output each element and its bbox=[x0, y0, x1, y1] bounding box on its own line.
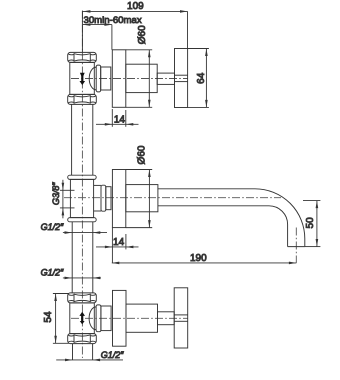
middle assembly horizontal centerline bbox=[64, 197, 281, 199]
flange F2 bottom edge extension bbox=[126, 227, 152, 229]
riser pipe P1 bbox=[71, 104, 73, 175]
flange F1 bottom edge extension to dia dim bbox=[126, 106, 152, 108]
tee T1 branch neck bbox=[94, 184, 101, 186]
dim 30min-60max right extension bbox=[111, 25, 113, 50]
valve V2 bottom hex nut bbox=[68, 334, 97, 344]
svg-text:190: 190 bbox=[190, 253, 207, 264]
flange F2 top edge extension bbox=[126, 169, 152, 171]
dim G1/2 lower line bbox=[63, 277, 101, 279]
spout end cap bbox=[288, 246, 305, 248]
valve V2 body bbox=[70, 303, 95, 334]
valve V1 body bbox=[70, 62, 95, 94]
dim 190 line bbox=[112, 262, 297, 264]
dim G3/8 extensions bbox=[60, 189, 75, 191]
handle body B1 bbox=[126, 64, 157, 92]
handle bar H3 bbox=[174, 288, 188, 348]
tee T1 branch sleeve bbox=[106, 187, 111, 210]
bottom assembly horizontal centerline bbox=[71, 317, 188, 319]
valve V2 stem sleeve bbox=[101, 306, 111, 331]
tee T1 body bbox=[70, 179, 93, 217]
dim 64 extensions bbox=[188, 48, 209, 50]
dim dia60 middle line bbox=[148, 170, 150, 228]
valve V1 flow arrow (down) bbox=[80, 73, 86, 85]
dim G3/8 line bbox=[62, 180, 64, 219]
svg-text:50: 50 bbox=[305, 217, 316, 229]
svg-text:Ø60: Ø60 bbox=[137, 145, 148, 164]
svg-text:G1/2″: G1/2″ bbox=[41, 222, 65, 232]
tee T1 bottom collar bbox=[68, 218, 97, 222]
dim 50 extensions bbox=[303, 200, 320, 202]
valve V1 collar bbox=[96, 65, 101, 92]
dim 14 middle extensions bbox=[111, 228, 113, 264]
spout drop centerline bbox=[295, 228, 297, 263]
dim 64 line bbox=[205, 49, 207, 108]
dim G1/2 upper line bbox=[63, 232, 107, 234]
flange F1 top edge extension to dia dim bbox=[126, 49, 152, 51]
dim 50 line bbox=[316, 201, 318, 247]
dim 30min-60max line bbox=[83, 24, 112, 26]
valve V2 cartridge dome bbox=[89, 307, 96, 330]
handle hub lines H1 bbox=[175, 74, 188, 76]
dim 54 extensions bbox=[53, 293, 69, 295]
handle stem S1 bbox=[157, 73, 174, 84]
dim 54 line bbox=[55, 294, 57, 344]
svg-text:30min-60max: 30min-60max bbox=[84, 15, 142, 26]
valve V2 collar bbox=[96, 305, 101, 332]
spout body B2 bbox=[126, 185, 158, 212]
valve V2 flow arrow (up) bbox=[79, 312, 85, 325]
svg-text:14: 14 bbox=[114, 115, 126, 126]
svg-text:Ø60: Ø60 bbox=[137, 25, 148, 44]
svg-text:G1/2″: G1/2″ bbox=[41, 268, 65, 278]
dim 14 middle line bbox=[96, 246, 139, 248]
dim dia60 top line bbox=[148, 50, 150, 108]
valve V1 stem sleeve bbox=[101, 67, 111, 90]
dim 109 right extension bbox=[187, 11, 189, 48]
svg-text:14: 14 bbox=[113, 237, 125, 248]
valve V1 cartridge dome bbox=[89, 67, 96, 90]
supply pipe P3 bbox=[72, 344, 74, 360]
valve V1 top hex nut bbox=[68, 52, 97, 62]
tee T1 branch ring bbox=[101, 185, 106, 211]
escutcheon flange F1 bbox=[112, 50, 126, 108]
handle bar H1 bbox=[175, 49, 188, 108]
handle stem S3 bbox=[158, 312, 175, 325]
escutcheon flange F3 bbox=[113, 290, 127, 346]
vertical pipe centerline bbox=[81, 11, 83, 359]
svg-text:G3/8″: G3/8″ bbox=[51, 182, 61, 206]
spout tube bbox=[158, 189, 305, 247]
valve V2 top hex nut bbox=[68, 293, 97, 303]
dim 109 line bbox=[53, 10, 321, 361]
dim 14 top line bbox=[96, 123, 139, 125]
tee T1 top collar bbox=[68, 175, 97, 179]
svg-text:109: 109 bbox=[127, 1, 144, 12]
dim G1/2 bottom line bbox=[56, 359, 123, 361]
valve V1 bottom hex nut bbox=[68, 94, 97, 104]
extension line over riser centerline bbox=[81, 11, 83, 53]
svg-text:64: 64 bbox=[196, 72, 207, 84]
top assembly horizontal centerline bbox=[71, 78, 188, 80]
escutcheon flange F2 bbox=[112, 170, 125, 228]
handle body B3 bbox=[126, 304, 158, 332]
dim 14 top extensions bbox=[111, 109, 113, 127]
riser pipe P2 bbox=[71, 222, 73, 293]
svg-text:G1/2″: G1/2″ bbox=[101, 350, 125, 360]
handle hub lines H3 bbox=[174, 314, 188, 316]
svg-text:54: 54 bbox=[43, 311, 54, 323]
